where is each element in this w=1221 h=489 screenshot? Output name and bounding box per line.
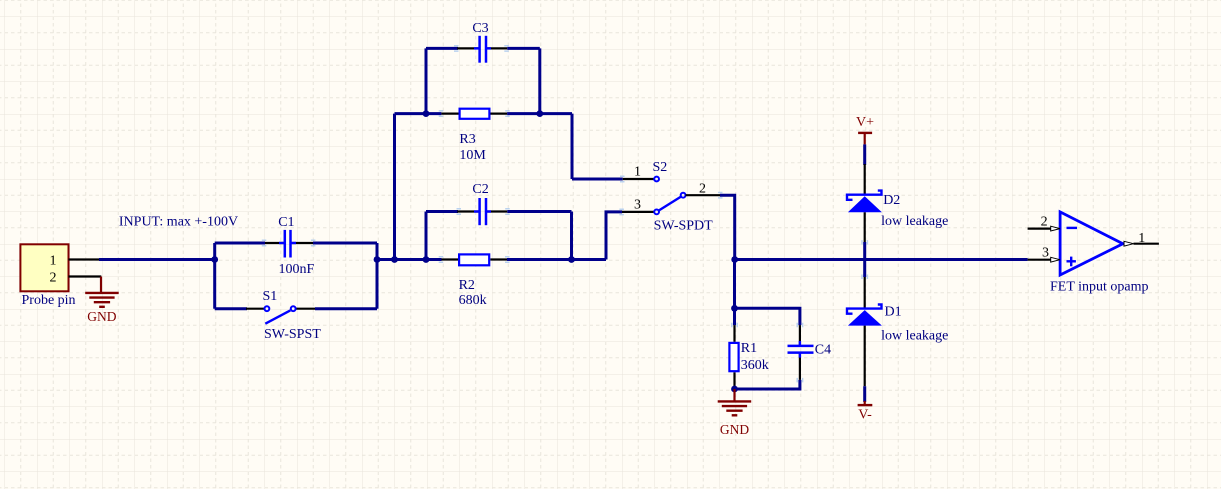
svg-text:D2: D2 [883, 193, 900, 208]
svg-text:C4: C4 [815, 343, 831, 358]
wire D1 to V- [863, 386, 866, 402]
junction node A [211, 256, 218, 263]
svg-text:2: 2 [1041, 215, 1048, 230]
junction C2 right [568, 256, 575, 263]
ground GND (probe) [85, 277, 119, 325]
wire R3 to S2 vertical [571, 114, 574, 179]
wire R3 branch vertical [393, 114, 396, 260]
junction C3 right [536, 110, 543, 117]
junction C3 left [423, 110, 430, 117]
svg-text:V-: V- [858, 408, 872, 423]
op-amp U1 body [1060, 212, 1123, 275]
svg-text:2: 2 [50, 271, 57, 286]
svg-text:R1: R1 [741, 341, 757, 356]
wire C3 loop left vertical [425, 48, 428, 113]
wire S1 branch left [215, 307, 247, 310]
switch S1 [246, 306, 315, 323]
wire main right to opamp [735, 258, 1028, 261]
wire R1C4 top branch [735, 308, 800, 325]
diode D2 [847, 164, 882, 243]
svg-text:C1: C1 [278, 215, 294, 230]
wire node B down to R1 node [733, 260, 736, 326]
switch S2 pin 1 [623, 164, 659, 181]
svg-text:SW-SPDT: SW-SPDT [654, 218, 714, 233]
svg-text:360k: 360k [741, 358, 769, 373]
svg-text:3: 3 [1042, 246, 1049, 261]
power port V- [858, 401, 873, 423]
wire R3 row right [507, 112, 572, 115]
wire main row segment [377, 258, 442, 261]
wire C1 branch left [215, 242, 265, 245]
svg-text:FET input opamp: FET input opamp [1050, 280, 1149, 295]
switch S2 pin 2 [681, 181, 720, 197]
svg-text:low leakage: low leakage [881, 329, 948, 344]
junction C2 left [423, 256, 430, 263]
wire to S2 pin1 [572, 178, 623, 181]
connector probe pin box [20, 244, 68, 291]
pin 2 of probe [50, 271, 102, 286]
capacitor C1 [265, 230, 313, 258]
wire riser to S2 pin3 [606, 212, 622, 260]
svg-text:Probe pin: Probe pin [22, 293, 76, 308]
svg-text:R3: R3 [459, 132, 475, 147]
svg-text:SW-SPST: SW-SPST [264, 327, 321, 342]
pin 1 of probe [50, 254, 101, 269]
wire C2 loop right vertical [570, 212, 573, 260]
svg-text:10M: 10M [459, 148, 486, 163]
junction R3 branch [391, 256, 398, 263]
svg-text:680k: 680k [459, 293, 487, 308]
wire probe to node A [99, 258, 215, 261]
wire C2 branch right [507, 210, 571, 213]
op-amp pin 1 output [1124, 231, 1159, 246]
wire C2 loop left vertical [425, 212, 428, 260]
svg-text:low leakage: low leakage [881, 214, 948, 229]
capacitor C4 [788, 325, 814, 380]
power port V+ [856, 115, 874, 145]
capacitor C3 [457, 36, 507, 63]
junction R1 top node [731, 305, 738, 312]
junction R1 bottom node [731, 386, 738, 393]
svg-text:1: 1 [50, 254, 57, 269]
ground GND2 [718, 389, 752, 437]
wire C1/S1 loop right vertical [376, 243, 379, 309]
op-amp pin 2 [1028, 215, 1060, 231]
svg-text:C2: C2 [472, 182, 488, 197]
resistor R1 [729, 325, 738, 389]
wire C1 branch right [313, 242, 377, 245]
wire D2 to D1 [863, 242, 866, 277]
wire C1/S1 loop left vertical [213, 243, 216, 309]
resistor R2 [441, 254, 507, 265]
switch S2 pin 3 [622, 197, 659, 214]
wire R3 row left [395, 112, 442, 115]
svg-text:D1: D1 [885, 304, 902, 319]
wire C4 bottom [735, 380, 800, 389]
op-amp pin 3 [1028, 246, 1060, 262]
svg-text:INPUT: max +-100V: INPUT: max +-100V [119, 215, 238, 230]
wire S2 pin2 down to main [720, 195, 735, 259]
wire C2 branch left [426, 210, 458, 213]
wire S1 branch right [315, 307, 377, 310]
junction main node B [731, 256, 738, 263]
svg-text:1: 1 [634, 164, 641, 179]
svg-text:1: 1 [1138, 231, 1145, 246]
svg-text:3: 3 [634, 197, 641, 212]
svg-text:S1: S1 [263, 289, 278, 304]
svg-text:V+: V+ [856, 115, 874, 130]
wire C3 branch left [426, 47, 458, 50]
svg-text:GND: GND [87, 309, 116, 324]
wire C3 branch right [507, 47, 540, 50]
svg-text:100nF: 100nF [279, 262, 315, 277]
op-amp minus [1067, 227, 1078, 229]
wire main row to pin3 riser [507, 258, 606, 261]
junction loop right [374, 256, 381, 263]
svg-text:R2: R2 [459, 278, 475, 293]
diode D1 [847, 277, 882, 386]
op-amp plus [1067, 257, 1076, 267]
resistor R3 [441, 109, 507, 119]
svg-text:S2: S2 [653, 160, 668, 175]
switch S2 lever [659, 197, 681, 211]
wire V+ to D2 [863, 144, 866, 165]
pin hotspot markers [262, 46, 868, 383]
svg-text:2: 2 [699, 181, 706, 196]
svg-text:C3: C3 [472, 21, 488, 36]
wire C3 loop right vertical [538, 48, 541, 113]
capacitor C2 [457, 198, 507, 225]
svg-text:GND: GND [720, 422, 749, 437]
